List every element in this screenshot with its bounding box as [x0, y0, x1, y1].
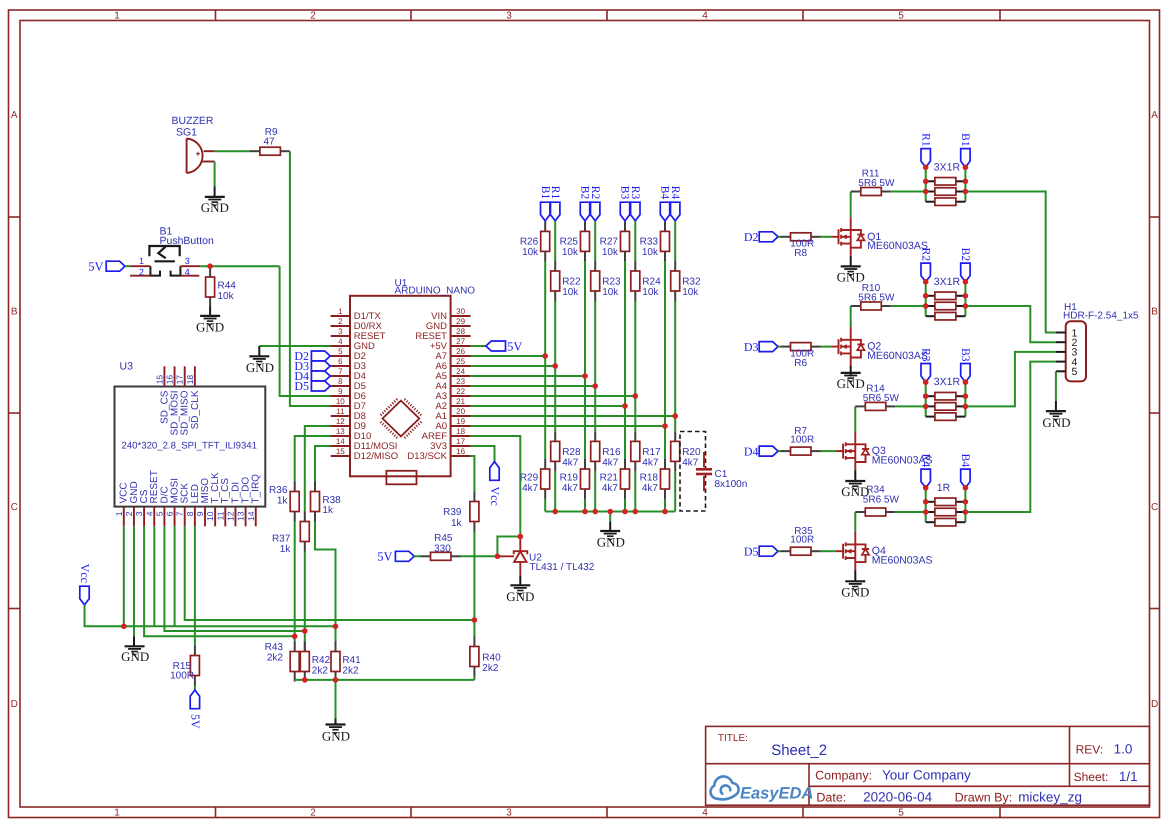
svg-text:B1: B1	[959, 133, 971, 147]
svg-text:100R: 100R	[170, 670, 194, 681]
network right bus	[964, 382, 966, 416]
U1 USB connector graphic	[386, 471, 416, 485]
svg-text:R45: R45	[434, 533, 453, 544]
ground (analog rail)	[600, 530, 620, 532]
svg-text:B4: B4	[959, 454, 971, 468]
svg-text:GND: GND	[597, 535, 625, 550]
svg-text:18: 18	[456, 427, 465, 436]
U3 pin 9 MISO	[204, 507, 206, 527]
svg-text:4: 4	[702, 807, 708, 818]
wire Q2 drain to R10	[850, 306, 852, 327]
resistor R16	[594, 431, 596, 441]
U3 pin 6 MOSI	[174, 507, 176, 527]
svg-text:4k7: 4k7	[602, 483, 619, 494]
U1 pin 4 GND	[331, 345, 350, 347]
net flag D2 (gate)	[759, 232, 778, 242]
resistor R40	[473, 637, 475, 647]
U1 pin 11 D8	[331, 415, 350, 417]
svg-text:20: 20	[456, 407, 465, 416]
resistor R45	[421, 555, 431, 557]
svg-text:D13/SCK: D13/SCK	[407, 451, 447, 462]
U1 pin 17 3V3	[451, 445, 471, 447]
U1 pin 8 D5	[331, 385, 350, 387]
svg-text:3X1R: 3X1R	[934, 276, 961, 288]
wire R34 to network	[895, 511, 925, 513]
svg-text:8: 8	[185, 511, 195, 516]
wire U1 A4 to column	[471, 385, 596, 387]
wire R1 flag down	[554, 221, 556, 261]
network resistor	[926, 405, 935, 407]
svg-text:GND: GND	[201, 200, 229, 215]
resistor R23	[594, 261, 596, 271]
wire R40 to rail	[473, 677, 475, 680]
wire R24 down	[634, 301, 636, 431]
wire R29 to rail	[544, 499, 546, 512]
U3 pin 8 LED	[194, 507, 196, 527]
svg-text:2k2: 2k2	[267, 652, 284, 663]
resistor R6 100R	[781, 346, 791, 348]
svg-text:2: 2	[139, 267, 144, 277]
network resistor	[926, 416, 935, 418]
svg-text:10k: 10k	[682, 287, 699, 298]
ground (Q1)	[841, 265, 861, 267]
wire H1 pin 5 to ground	[1055, 371, 1057, 401]
svg-text:7: 7	[338, 367, 343, 376]
svg-text:10k: 10k	[562, 287, 579, 298]
ground (U2)	[510, 584, 530, 586]
resistor R28	[554, 431, 556, 441]
resistor R38	[314, 482, 316, 492]
net flag R4 (network)	[921, 469, 930, 488]
svg-text:R27: R27	[600, 237, 619, 248]
wire R2 flag down	[594, 221, 596, 261]
svg-text:5: 5	[1072, 366, 1078, 378]
capacitor C1 8x100n	[680, 432, 706, 512]
net flag B2 (network)	[961, 263, 970, 282]
U1 pin 13 D10	[331, 435, 350, 437]
svg-text:B3: B3	[619, 186, 631, 200]
U3 pin 17 SD_MISO	[184, 366, 186, 386]
svg-text:GND: GND	[841, 585, 869, 600]
svg-text:B: B	[1151, 307, 1158, 318]
svg-text:2k2: 2k2	[342, 665, 359, 676]
ground (Q2)	[841, 372, 861, 374]
transistor Q2 ME60N03AS	[831, 327, 864, 366]
svg-text:7: 7	[175, 511, 185, 516]
resistor R25	[584, 221, 586, 231]
net flag 5V (R45)	[395, 551, 414, 561]
resistor R27	[624, 221, 626, 231]
svg-text:22: 22	[456, 387, 465, 396]
resistor R43	[294, 642, 296, 652]
svg-text:Sheet:: Sheet:	[1074, 770, 1109, 784]
wire U1 D13/SCK to R39	[471, 456, 475, 492]
wire U1 A0 to column	[471, 425, 665, 427]
wire U1 A2 to column	[471, 405, 625, 407]
wire R37 to R42	[304, 552, 306, 652]
wire R45 to U2	[461, 555, 498, 557]
wire R20 to rail	[674, 471, 676, 511]
buzzer SG1 pin 1	[204, 150, 215, 152]
svg-text:10k: 10k	[602, 247, 619, 258]
svg-text:25: 25	[456, 357, 465, 366]
svg-text:14: 14	[336, 437, 345, 446]
pushbutton B1 pin 2	[130, 275, 151, 277]
U3 pin 3 CS	[143, 507, 145, 527]
wire R3 flag down	[634, 221, 636, 261]
svg-text:R3: R3	[919, 348, 931, 362]
net flag D4 (U1)	[311, 371, 330, 381]
net flag D3 (gate)	[759, 342, 778, 352]
svg-text:5R6 5W: 5R6 5W	[858, 178, 895, 189]
svg-text:10k: 10k	[562, 247, 579, 258]
wire U1 GND to ground	[259, 345, 330, 347]
svg-text:10k: 10k	[602, 287, 619, 298]
wire network B2 to H1 pin 2	[965, 306, 1056, 342]
ground (Q3)	[845, 480, 865, 482]
svg-text:15: 15	[154, 375, 164, 385]
U3 pin 12 T_DI	[234, 507, 236, 527]
H1 pin 4	[1056, 361, 1066, 363]
wire R28 to rail	[554, 471, 556, 511]
U1 pin 5 D2	[331, 355, 350, 357]
svg-text:R18: R18	[640, 473, 659, 484]
svg-text:1k: 1k	[280, 544, 292, 555]
svg-text:C: C	[11, 502, 18, 513]
wire R39 to R40	[473, 532, 475, 637]
ground (buzzer)	[205, 196, 225, 198]
wire 5V flag to R45	[414, 555, 420, 557]
net flag D5 (gate)	[759, 546, 778, 556]
wire R44 to ground	[209, 307, 211, 316]
net flag R1 (top)	[551, 202, 560, 221]
U3 pin 4 RESET	[153, 507, 155, 527]
svg-text:Sheet_2: Sheet_2	[771, 742, 827, 759]
wire D4 flag to R7	[778, 450, 781, 452]
resistor R17	[634, 431, 636, 441]
resistor R41	[335, 642, 337, 652]
svg-text:15: 15	[336, 447, 345, 456]
network resistor	[926, 191, 935, 193]
net flag D2 (U1)	[311, 351, 330, 361]
transistor Q1 ME60N03AS	[831, 217, 864, 256]
svg-text:240*320_2.8_SPI_TFT_ILI9341: 240*320_2.8_SPI_TFT_ILI9341	[122, 441, 257, 452]
wire bottom rail R43-R40	[295, 679, 475, 681]
svg-text:30: 30	[456, 307, 465, 316]
network right bus	[964, 282, 966, 316]
wire network B1 to H1 pin 1	[965, 192, 1056, 333]
svg-text:5R6 5W: 5R6 5W	[858, 293, 895, 304]
svg-text:GND: GND	[1042, 415, 1070, 430]
U1 pin 3 RESET	[331, 335, 350, 337]
svg-text:R21: R21	[600, 473, 619, 484]
network resistor	[926, 201, 935, 203]
wire R7 to Q3 gate	[821, 450, 836, 452]
wire D3 flag to R6	[778, 346, 781, 348]
svg-text:1/1: 1/1	[1119, 769, 1138, 784]
svg-text:19: 19	[456, 417, 465, 426]
wire R22 down	[554, 301, 556, 431]
wire network B4 to H1 pin 4	[965, 362, 1056, 512]
wire U3 pin8 LED to R15	[194, 526, 196, 645]
net flag B4 (top)	[660, 202, 669, 221]
net flag 5V (pushbutton)	[106, 261, 125, 271]
svg-text:5: 5	[154, 511, 164, 516]
svg-text:21: 21	[456, 397, 465, 406]
svg-text:U3: U3	[120, 361, 134, 373]
svg-text:ME60N03AS: ME60N03AS	[867, 240, 928, 252]
buzzer SG1 pin 2	[203, 161, 215, 163]
svg-text:2k2: 2k2	[482, 663, 499, 674]
svg-text:29: 29	[456, 317, 465, 326]
svg-text:HDR-F-2.54_1x5: HDR-F-2.54_1x5	[1063, 310, 1139, 321]
resistor R26	[544, 221, 546, 231]
svg-text:24: 24	[456, 367, 465, 376]
svg-text:R26: R26	[520, 237, 539, 248]
svg-text:D: D	[1151, 699, 1158, 710]
wire R32 down	[674, 301, 676, 431]
wire R9 to Arduino D7	[290, 151, 331, 406]
wire R11 to network	[891, 191, 926, 193]
svg-text:10: 10	[336, 397, 345, 406]
svg-text:10k: 10k	[218, 291, 235, 302]
wire U3 pin6 MOSI down	[174, 526, 176, 626]
shunt reference U2 TL431	[497, 555, 514, 557]
svg-text:5V: 5V	[507, 339, 522, 353]
resistor R24	[634, 261, 636, 271]
wire Q1 drain to R11	[850, 192, 852, 218]
svg-text:4: 4	[185, 267, 190, 277]
network right bus	[964, 488, 966, 522]
resistor R37	[304, 512, 306, 522]
svg-text:ARDUINO_NANO: ARDUINO_NANO	[395, 286, 476, 297]
svg-text:GND: GND	[322, 728, 350, 743]
resistor R14 5R6 5W	[855, 405, 865, 407]
H1 pin 5	[1056, 370, 1066, 372]
U3 pin 7 SCK	[184, 507, 186, 527]
U1 pin 12 D9	[331, 425, 350, 427]
wire R18 to rail	[664, 499, 666, 512]
wire D5 flag to R35	[778, 550, 781, 552]
svg-text:10k: 10k	[642, 247, 659, 258]
svg-text:4k7: 4k7	[562, 483, 579, 494]
svg-text:Vcc: Vcc	[488, 487, 502, 506]
net flag R2 (top)	[591, 202, 600, 221]
svg-text:R2: R2	[589, 186, 601, 200]
svg-text:4: 4	[702, 11, 708, 22]
network resistor	[926, 511, 935, 513]
U3 pin 14 T_IRQ	[255, 507, 257, 527]
svg-text:3: 3	[506, 11, 512, 22]
wire buzzer pin1 to R9	[215, 150, 250, 152]
svg-text:GND: GND	[196, 319, 224, 334]
wire R8 to Q1 gate	[821, 236, 832, 238]
resistor R32	[674, 261, 676, 271]
svg-text:3: 3	[134, 511, 144, 516]
svg-text:R38: R38	[322, 495, 341, 506]
svg-text:ME60N03AS: ME60N03AS	[867, 350, 928, 362]
net flag B4 (network)	[961, 469, 970, 488]
svg-text:11: 11	[215, 511, 225, 520]
svg-text:R41: R41	[342, 655, 361, 666]
network left bus	[925, 488, 927, 522]
svg-text:R1: R1	[919, 133, 931, 147]
wire R26 down	[544, 261, 546, 459]
svg-text:5R6 5W: 5R6 5W	[863, 393, 900, 404]
svg-text:B3: B3	[959, 348, 971, 362]
svg-text:8x100n: 8x100n	[715, 479, 748, 490]
svg-text:R43: R43	[265, 642, 284, 653]
svg-text:4: 4	[144, 511, 154, 516]
U1 pin 16 D13/SCK	[451, 455, 471, 457]
svg-text:D5: D5	[294, 379, 309, 393]
wire R36 to R43	[294, 522, 296, 642]
U1 pin 2 D0/RX	[331, 325, 350, 327]
wire pushbutton pin3 to D6 node	[200, 265, 279, 267]
net flag R1 (network)	[921, 149, 930, 168]
net flag D4 (gate)	[759, 446, 778, 456]
network resistor	[926, 395, 935, 397]
wire U1 AREF to U2 node	[471, 436, 521, 537]
net flag 5V (R15)	[190, 690, 199, 709]
svg-text:GND: GND	[246, 360, 274, 375]
svg-text:23: 23	[456, 377, 465, 386]
wire U1 3V3 to Vcc flag	[471, 446, 495, 462]
ground (Q4)	[845, 580, 865, 582]
wire R27 down	[624, 261, 626, 459]
wire rail to ground	[335, 680, 337, 719]
U1 pin 26 A7	[451, 355, 471, 357]
wire Q1 source to ground	[850, 256, 852, 267]
wire Q3 drain to R14	[854, 406, 856, 431]
wire U1 D11/MOSI to R38	[315, 446, 331, 482]
net flag B3 (top)	[620, 202, 629, 221]
resistor R8 100R	[781, 236, 791, 238]
resistor R9	[250, 150, 260, 152]
svg-text:Vcc: Vcc	[78, 564, 92, 583]
svg-text:R2: R2	[919, 248, 931, 262]
svg-text:ME60N03AS: ME60N03AS	[872, 555, 933, 567]
svg-text:SD_CLK: SD_CLK	[190, 390, 201, 429]
net flag R3 (network)	[921, 364, 930, 383]
U1 pin 25 A6	[451, 365, 471, 367]
svg-text:5: 5	[338, 347, 343, 356]
svg-text:TITLE:: TITLE:	[718, 733, 748, 744]
wire U1 A3 to column	[471, 395, 636, 397]
U1 pin 18 AREF	[451, 435, 471, 437]
svg-text:R4: R4	[669, 186, 681, 200]
wire U3 pin2 GND to ground	[133, 526, 135, 636]
resistor R15	[194, 646, 196, 656]
svg-text:100R: 100R	[790, 535, 814, 546]
svg-text:2020-06-04: 2020-06-04	[863, 790, 933, 805]
buzzer SG1	[187, 139, 203, 174]
U1 pin 15 D12/MISO	[331, 455, 350, 457]
svg-text:R28: R28	[562, 447, 581, 458]
svg-text:14: 14	[246, 511, 256, 521]
svg-text:6: 6	[165, 511, 175, 516]
svg-text:10k: 10k	[642, 287, 659, 298]
wire Q4 drain to R34	[854, 512, 856, 532]
svg-text:2: 2	[310, 11, 316, 22]
resistor R7 100R	[781, 450, 791, 452]
svg-text:R3: R3	[629, 186, 641, 200]
svg-text:R20: R20	[682, 447, 701, 458]
U1 pin 21 A2	[451, 405, 471, 407]
pushbutton B1 pin 1	[130, 265, 150, 267]
net flag Vcc (left)	[80, 586, 89, 605]
network resistor	[926, 315, 935, 317]
svg-text:R22: R22	[562, 277, 581, 288]
svg-text:2: 2	[310, 807, 316, 818]
ground (R44)	[200, 315, 220, 317]
network left bus	[925, 167, 927, 201]
svg-text:Date:: Date:	[816, 791, 846, 805]
svg-text:10k: 10k	[522, 247, 539, 258]
svg-text:11: 11	[336, 407, 345, 416]
wire pushbutton node down to Arduino D6	[280, 266, 331, 396]
svg-text:Company:: Company:	[815, 768, 872, 782]
svg-text:100R: 100R	[790, 435, 814, 446]
svg-text:4k7: 4k7	[642, 458, 659, 469]
svg-text:3: 3	[185, 256, 190, 266]
wire U1 A7 to column	[471, 355, 546, 357]
svg-text:R29: R29	[520, 473, 539, 484]
resistor R10 5R6 5W	[851, 305, 861, 307]
svg-text:1: 1	[114, 807, 120, 818]
wire D2 flag to R8	[778, 236, 781, 238]
net flag R2 (network)	[921, 263, 930, 282]
svg-text:R16: R16	[602, 447, 621, 458]
svg-text:R8: R8	[794, 248, 807, 259]
svg-text:2k2: 2k2	[312, 665, 329, 676]
svg-text:D: D	[11, 699, 18, 710]
svg-text:TL431 / TL432: TL431 / TL432	[530, 562, 595, 573]
wire AREF node to R45 node	[497, 537, 520, 557]
U1 pin 6 D3	[331, 365, 350, 367]
network right bus	[964, 167, 966, 201]
U3 pin 2 GND	[133, 507, 135, 527]
wire R33 down	[664, 261, 666, 459]
pushbutton B1	[149, 246, 179, 261]
U3 pin 10 T_CLK	[214, 507, 216, 527]
svg-text:Your Company: Your Company	[882, 767, 971, 782]
svg-text:4k7: 4k7	[642, 483, 659, 494]
svg-text:D4: D4	[744, 444, 759, 458]
svg-text:D12/MISO: D12/MISO	[354, 451, 398, 462]
svg-text:PushButton: PushButton	[160, 235, 214, 247]
wire network B3 to H1 pin 3	[965, 352, 1056, 407]
svg-text:4k7: 4k7	[522, 483, 539, 494]
svg-text:1k: 1k	[277, 496, 289, 507]
net flag 5V (U1 +5V)	[471, 345, 486, 347]
U1 pin 9 D6	[331, 395, 350, 397]
wire R23 down	[594, 301, 596, 431]
svg-text:R42: R42	[312, 655, 331, 666]
wire U1 A6 to column	[471, 365, 556, 367]
svg-text:R33: R33	[640, 237, 659, 248]
U3 pin 16 SD_MOSI	[174, 366, 176, 386]
svg-text:3: 3	[338, 327, 343, 336]
wire Vcc flag to U3 VCC and R41 node	[85, 605, 336, 626]
svg-text:47: 47	[264, 136, 276, 147]
svg-text:4k7: 4k7	[602, 458, 619, 469]
wire 5V flag to pushbutton pin1	[125, 265, 130, 267]
wire buzzer pin2 to ground	[214, 162, 216, 187]
U3 pin 15 SD_CS	[163, 366, 165, 386]
pushbutton B1 pin 4	[180, 275, 199, 277]
wire U3 pin1 VCC down	[123, 526, 125, 626]
